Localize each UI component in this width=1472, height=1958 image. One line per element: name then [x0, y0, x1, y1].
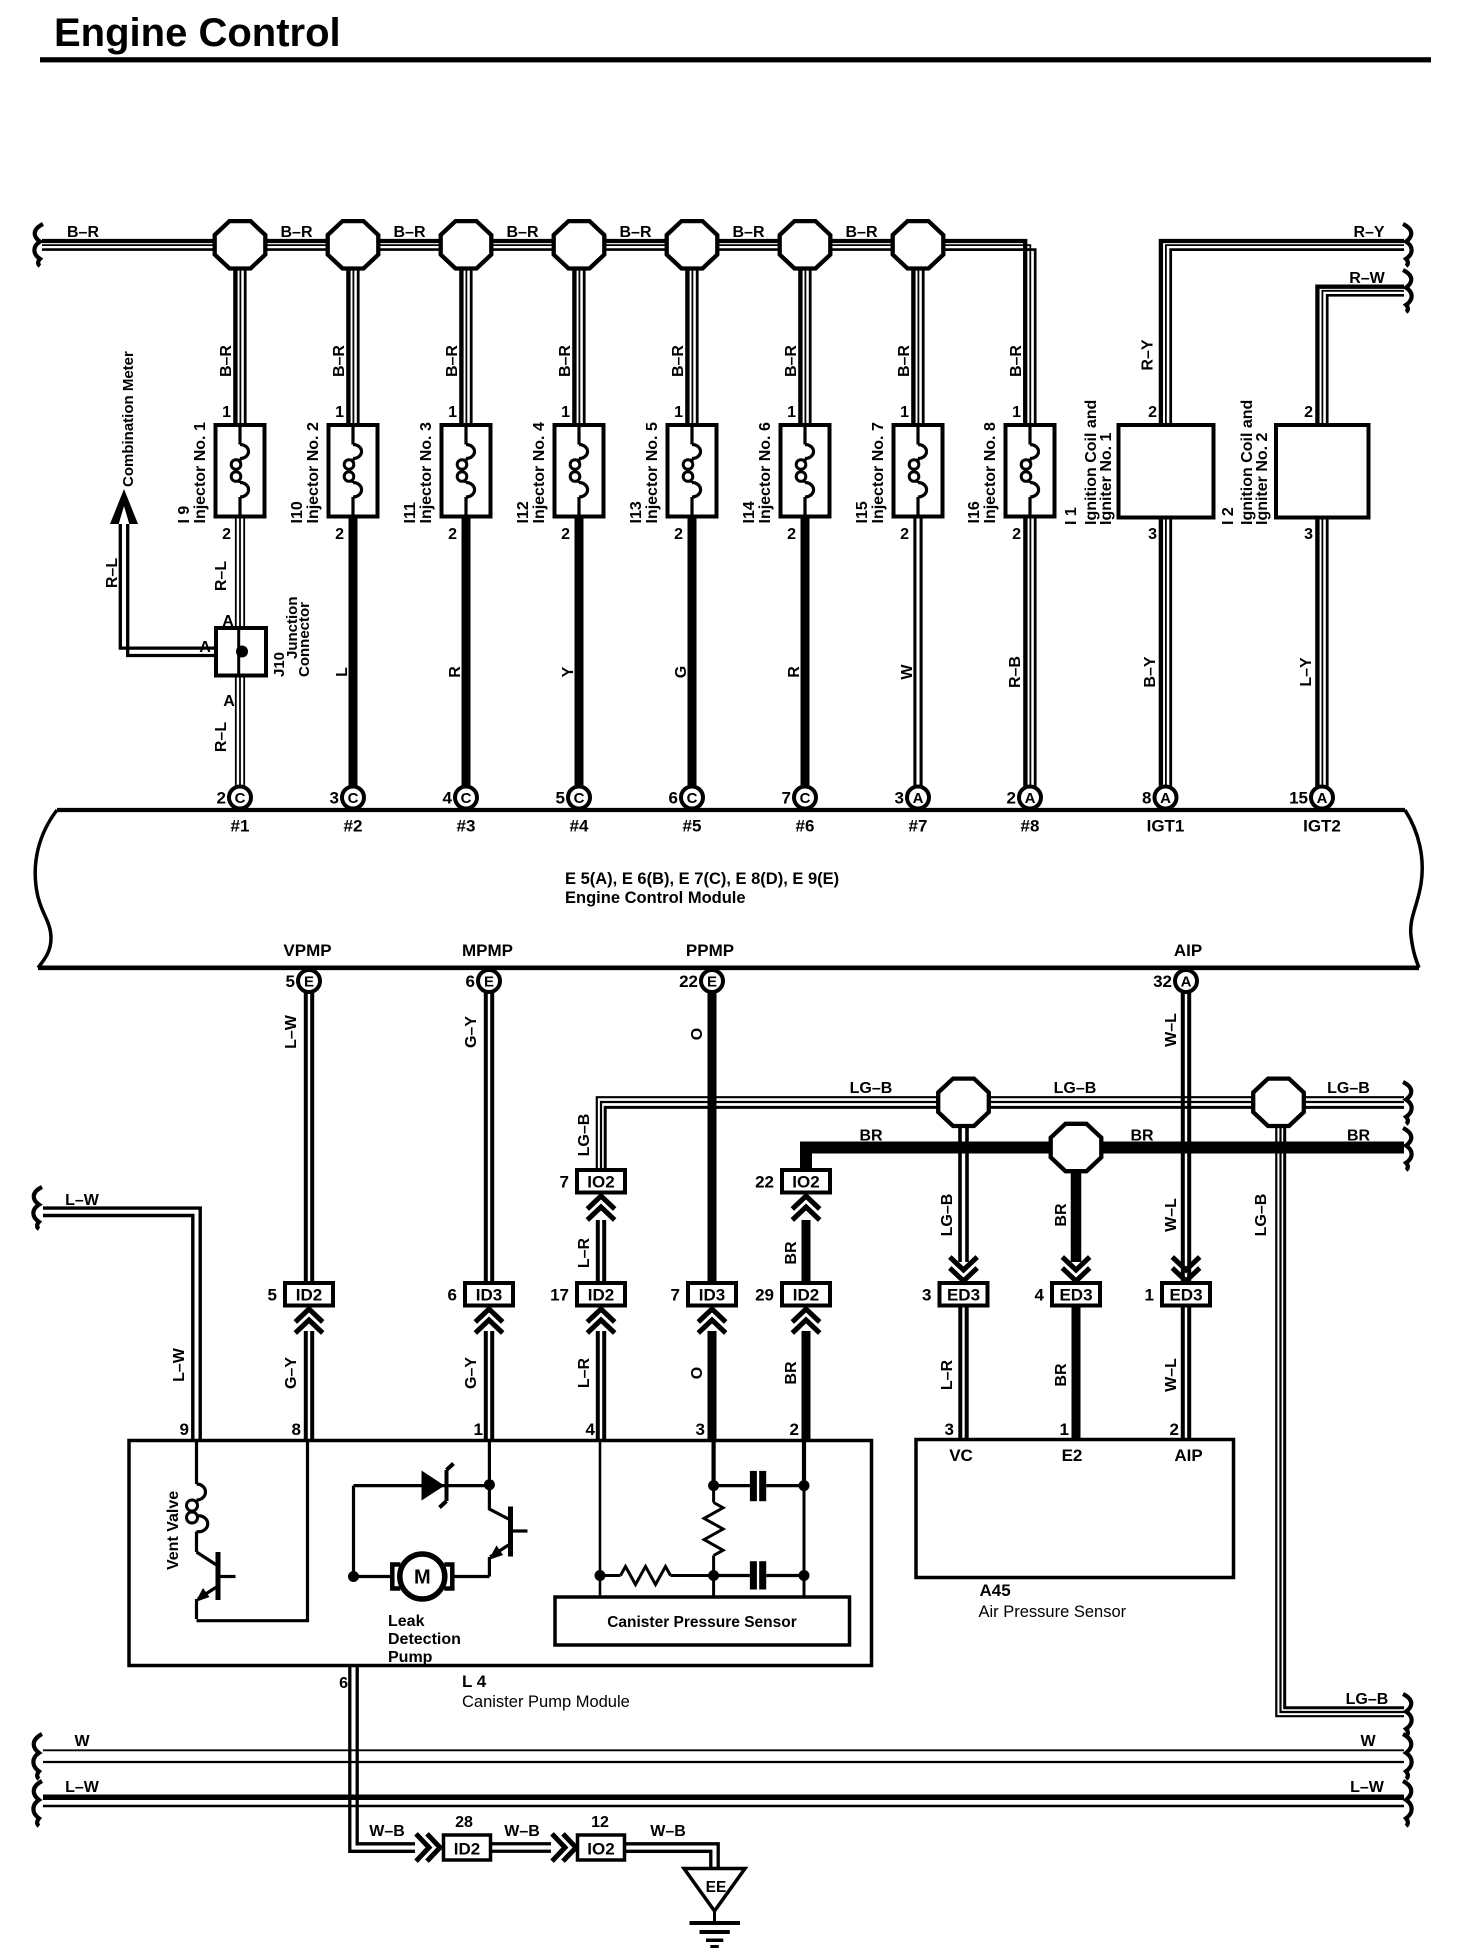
label LG-B right vertical — [1253, 1194, 1270, 1237]
wire B-Y IGT1 — [1161, 518, 1171, 789]
svg-text:G: G — [673, 666, 690, 678]
arrow up below 7 ID3 — [698, 1309, 725, 1333]
label L-Y — [1298, 657, 1315, 687]
ignition coil I2 Ignition Coil and Igniter No. 2 — [1220, 400, 1369, 543]
svg-text:1: 1 — [1012, 404, 1021, 421]
wire injector 6 pin2 to ECM — [801, 517, 810, 789]
svg-text:R–W: R–W — [1349, 270, 1385, 287]
svg-text:B–R: B–R — [896, 345, 913, 377]
svg-text:15: 15 — [1289, 789, 1308, 808]
junction octagon J2 on B-R bus — [328, 221, 379, 268]
label A left of J10 — [199, 639, 211, 656]
svg-text:#1: #1 — [231, 817, 250, 836]
label wire color G — [673, 666, 690, 678]
svg-text:9: 9 — [180, 1420, 189, 1439]
svg-text:B–R: B–R — [619, 224, 651, 241]
wire injector 5 pin2 to ECM — [688, 517, 697, 789]
svg-text:2: 2 — [787, 526, 796, 543]
svg-text:Combination Meter: Combination Meter — [120, 351, 137, 487]
svg-text:6: 6 — [669, 789, 678, 808]
junction octagon J3 on B-R bus — [441, 221, 492, 268]
svg-text:A: A — [1181, 973, 1192, 990]
label G-Y lower — [283, 1357, 300, 1389]
svg-text:29: 29 — [755, 1286, 774, 1305]
svg-text:3: 3 — [696, 1420, 705, 1439]
svg-text:E2: E2 — [1062, 1446, 1083, 1465]
wire W-B from canister pin 6 — [339, 1666, 415, 1852]
svg-text:2: 2 — [1007, 789, 1016, 808]
wire injector 7 pin2 to ECM — [915, 517, 921, 789]
svg-text:IO2: IO2 — [587, 1173, 614, 1192]
svg-text:L–W: L–W — [171, 1347, 188, 1382]
svg-text:VPMP: VPMP — [283, 941, 331, 960]
arrow up below 22 IO2 — [792, 1196, 819, 1220]
svg-text:ID3: ID3 — [476, 1286, 502, 1305]
svg-text:B–R: B–R — [218, 345, 235, 377]
labels W — [74, 1733, 1376, 1750]
label W-L upper — [1163, 1013, 1180, 1047]
svg-text:Injector No. 7: Injector No. 7 — [870, 422, 887, 523]
svg-text:L–W: L–W — [65, 1192, 100, 1209]
svg-text:7: 7 — [671, 1286, 680, 1305]
svg-text:I13: I13 — [628, 501, 645, 523]
svg-text:LG–B: LG–B — [1346, 1691, 1389, 1708]
svg-text:1: 1 — [474, 1420, 483, 1439]
ECM module label — [565, 870, 839, 907]
svg-text:3: 3 — [330, 789, 339, 808]
svg-text:ID2: ID2 — [793, 1286, 819, 1305]
svg-text:3: 3 — [945, 1420, 954, 1439]
svg-text:B–R: B–R — [845, 224, 877, 241]
junction octagon J1 on B-R bus — [215, 221, 266, 268]
injector I9 Injector No. 1 — [176, 404, 265, 543]
svg-text:Injector No. 3: Injector No. 3 — [418, 422, 435, 523]
curl W left — [33, 1734, 42, 1779]
svg-text:3: 3 — [922, 1286, 931, 1305]
label W-L lower — [1163, 1358, 1180, 1392]
zener diode D1 — [354, 1464, 490, 1508]
svg-text:G–Y: G–Y — [283, 1357, 300, 1389]
canister pressure sensor box — [555, 1597, 850, 1645]
svg-text:5: 5 — [268, 1286, 277, 1305]
svg-text:I15: I15 — [854, 501, 871, 523]
svg-text:2: 2 — [222, 526, 231, 543]
svg-text:B–R: B–R — [393, 224, 425, 241]
wire BR drop to ED3 — [1071, 1147, 1082, 1262]
injector I14 Injector No. 6 — [741, 404, 830, 543]
label R-Y — [1353, 224, 1384, 241]
svg-text:2: 2 — [448, 526, 457, 543]
label wire color R — [786, 666, 803, 678]
curl LG-B right — [1403, 1082, 1412, 1124]
svg-text:2: 2 — [217, 789, 226, 808]
svg-text:Engine Control Module: Engine Control Module — [565, 889, 746, 907]
svg-text:R–L: R–L — [104, 558, 121, 588]
svg-text:A: A — [223, 693, 235, 710]
svg-text:#3: #3 — [457, 817, 476, 836]
resistor R2 horizontal — [600, 1567, 714, 1585]
svg-text:W–B: W–B — [650, 1823, 686, 1840]
svg-text:#5: #5 — [683, 817, 702, 836]
connector 4 ED3 — [1035, 1283, 1100, 1306]
label W-B 2 — [504, 1823, 540, 1840]
svg-text:7: 7 — [782, 789, 791, 808]
svg-text:ID2: ID2 — [454, 1840, 480, 1859]
svg-text:Injector No. 4: Injector No. 4 — [531, 422, 548, 523]
wire pin 4 to sensor — [599, 1442, 602, 1597]
svg-text:M: M — [414, 1567, 431, 1589]
connector 28 ID2 — [444, 1814, 491, 1860]
svg-text:5: 5 — [286, 972, 295, 991]
svg-text:E 5(A), E 6(B), E 7(C), E 8(D): E 5(A), E 6(B), E 7(C), E 8(D), E 9(E) — [565, 870, 839, 888]
wire injector 2 pin2 to ECM — [349, 517, 358, 789]
label BR A45 — [1053, 1363, 1070, 1387]
ECM band top edge — [57, 808, 1405, 812]
svg-text:22: 22 — [755, 1173, 774, 1192]
svg-text:8: 8 — [1142, 789, 1151, 808]
svg-text:R: R — [786, 666, 803, 678]
label Leak Detection Pump — [388, 1613, 461, 1666]
wire injector 4 pin2 to ECM — [575, 517, 584, 789]
svg-text:B–R: B–R — [732, 224, 764, 241]
node sensor junctions — [595, 1480, 810, 1581]
svg-text:ED3: ED3 — [947, 1286, 980, 1305]
wire diode left leg down — [352, 1486, 355, 1577]
labels L-W bus — [65, 1779, 1385, 1796]
svg-text:Connector: Connector — [296, 602, 313, 677]
junction octagon J6 on B-R bus — [780, 221, 831, 268]
svg-text:L–R: L–R — [576, 1237, 593, 1268]
curl L-W left bottom — [33, 1781, 42, 1826]
svg-text:Injector No. 5: Injector No. 5 — [644, 422, 661, 523]
svg-text:I 2: I 2 — [1220, 507, 1237, 525]
junction octagon J5 on B-R bus — [667, 221, 718, 268]
svg-text:Detection: Detection — [388, 1631, 461, 1648]
svg-text:L: L — [334, 667, 351, 677]
svg-text:MPMP: MPMP — [462, 941, 513, 960]
svg-text:1: 1 — [787, 404, 796, 421]
wire W bus — [43, 1750, 1404, 1762]
svg-text:2: 2 — [1012, 526, 1021, 543]
arrow up below 17 ID2 — [587, 1309, 614, 1333]
svg-text:IGT2: IGT2 — [1303, 817, 1341, 836]
connector 29 ID2 — [755, 1283, 830, 1306]
svg-text:1: 1 — [1060, 1420, 1069, 1439]
svg-text:I16: I16 — [966, 501, 983, 523]
vent valve coil — [187, 1442, 208, 1552]
svg-text:3: 3 — [1304, 526, 1313, 543]
svg-text:#4: #4 — [570, 817, 589, 836]
svg-text:W–B: W–B — [504, 1823, 540, 1840]
wire BR bus — [801, 1142, 1404, 1171]
svg-text:6: 6 — [466, 972, 475, 991]
svg-text:IO2: IO2 — [587, 1840, 614, 1859]
svg-text:W: W — [899, 664, 916, 680]
label LG-B above IO2 — [576, 1114, 593, 1157]
label Combination Meter — [120, 351, 137, 487]
svg-text:2: 2 — [1304, 404, 1313, 421]
ECM pin 6(C) #5 — [669, 787, 703, 836]
svg-text:O: O — [689, 1367, 706, 1379]
label W-B 1 — [369, 1823, 405, 1840]
svg-text:LG–B: LG–B — [1327, 1080, 1370, 1097]
wire LG-B right vertical to bottom — [1276, 1102, 1404, 1716]
svg-text:A: A — [913, 790, 924, 807]
ECM pin 2(C) #1 — [217, 787, 251, 836]
wire B-R bus end curl left — [34, 224, 43, 266]
label L-R lower — [576, 1357, 593, 1388]
labels BR on bus — [859, 1128, 1370, 1145]
air pressure sensor A45 box — [916, 1440, 1234, 1578]
transistor Q2 leak pump — [489, 1485, 528, 1577]
label R-W — [1349, 270, 1385, 287]
svg-text:Y: Y — [560, 666, 577, 677]
wire L-R to A45 pin 3 — [960, 1306, 966, 1441]
label L 4 Canister Pump Module — [462, 1672, 630, 1711]
svg-text:B–R: B–R — [670, 345, 687, 377]
connector 17 ID2 — [550, 1283, 625, 1306]
label LG-B bottom — [1346, 1691, 1389, 1708]
svg-text:22: 22 — [679, 972, 698, 991]
svg-text:R: R — [447, 666, 464, 678]
svg-text:E: E — [707, 973, 717, 990]
label LG-B above ED3 — [939, 1194, 956, 1237]
svg-text:IO2: IO2 — [792, 1173, 819, 1192]
title: Engine Control — [40, 11, 1431, 62]
wire R-W feed — [1317, 287, 1404, 425]
svg-text:#6: #6 — [796, 817, 815, 836]
wire BR to canister pin 2 — [802, 1331, 811, 1441]
wire G-Y from MPMP — [486, 992, 492, 1283]
svg-text:C: C — [687, 790, 698, 807]
ECM pin 3(A) #7 — [895, 787, 929, 836]
svg-text:4: 4 — [1035, 1286, 1045, 1305]
label G-Y lower2 — [463, 1357, 480, 1389]
svg-text:1: 1 — [900, 404, 909, 421]
injector I13 Injector No. 5 — [628, 404, 717, 543]
label L-W vertical — [171, 1347, 188, 1382]
wire pin1 to pump transistor — [488, 1442, 491, 1485]
wire W-L continue over buses — [1183, 1282, 1189, 1284]
injector I15 Injector No. 7 — [854, 404, 943, 543]
svg-text:B–R: B–R — [557, 345, 574, 377]
wire LG-B drop to ED3 — [960, 1102, 967, 1262]
svg-text:L 4: L 4 — [462, 1672, 487, 1691]
svg-text:Injector No. 8: Injector No. 8 — [982, 422, 999, 523]
canister pin labels — [180, 1420, 799, 1439]
svg-text:12: 12 — [591, 1814, 609, 1831]
svg-text:Injector No. 1: Injector No. 1 — [192, 422, 209, 523]
svg-text:2: 2 — [900, 526, 909, 543]
svg-text:A: A — [1317, 790, 1328, 807]
label wire color L — [334, 667, 351, 677]
svg-text:E: E — [484, 973, 494, 990]
wire W-B 3 to ground — [625, 1844, 719, 1867]
svg-text:5: 5 — [556, 789, 565, 808]
capacitor C2 bottom — [714, 1561, 804, 1589]
svg-text:7: 7 — [560, 1173, 569, 1192]
capacitor C1 top — [714, 1471, 804, 1501]
svg-text:C: C — [461, 790, 472, 807]
svg-text:BR: BR — [1347, 1128, 1371, 1145]
svg-text:28: 28 — [455, 1814, 473, 1831]
connector 22 IO2 — [755, 1170, 830, 1193]
wire R-Y curl right — [1403, 224, 1412, 266]
svg-text:I 1: I 1 — [1063, 507, 1080, 525]
svg-text:6: 6 — [339, 1675, 348, 1692]
svg-text:A45: A45 — [980, 1581, 1011, 1600]
wire injector 3 pin2 to ECM — [462, 517, 471, 789]
ECM pin 3(C) #2 — [330, 787, 364, 836]
svg-text:IGT1: IGT1 — [1147, 817, 1185, 836]
junction connector J10 — [216, 597, 313, 678]
svg-text:I14: I14 — [741, 501, 758, 523]
label G-Y — [463, 1016, 480, 1048]
svg-text:2: 2 — [561, 526, 570, 543]
wire L-Y IGT2 — [1317, 518, 1327, 789]
svg-text:Vent Valve: Vent Valve — [165, 1491, 182, 1570]
wire injector 8 pin2 to ECM — [1025, 517, 1035, 789]
wire O to canister pin 3 — [708, 1331, 717, 1441]
svg-text:AIP: AIP — [1174, 941, 1202, 960]
junction octagon on LG-B bus right — [1253, 1079, 1304, 1126]
svg-text:L–Y: L–Y — [1298, 657, 1315, 687]
svg-text:W–L: W–L — [1163, 1013, 1180, 1047]
svg-text:L–W: L–W — [1350, 1779, 1385, 1796]
svg-text:R–L: R–L — [213, 722, 230, 752]
svg-text:LG–B: LG–B — [850, 1080, 893, 1097]
svg-text:17: 17 — [550, 1286, 569, 1305]
svg-text:2: 2 — [790, 1420, 799, 1439]
svg-text:6: 6 — [448, 1286, 457, 1305]
svg-text:2: 2 — [1148, 404, 1157, 421]
svg-text:B–R: B–R — [444, 345, 461, 377]
svg-text:Pump: Pump — [388, 1649, 433, 1666]
label wire color R — [447, 666, 464, 678]
svg-text:O: O — [689, 1028, 706, 1040]
arrow down above 3 ED3 — [950, 1257, 977, 1281]
svg-text:A: A — [1025, 790, 1036, 807]
svg-text:BR: BR — [859, 1128, 883, 1145]
label A45 Air Pressure Sensor — [979, 1581, 1127, 1621]
wire O from PPMP — [708, 992, 717, 1283]
wire LG-B bus — [597, 1097, 1404, 1170]
svg-text:1: 1 — [674, 404, 683, 421]
svg-text:BR: BR — [783, 1241, 800, 1265]
ECM pin 7(C) #6 — [782, 787, 816, 836]
svg-text:Injector No. 2: Injector No. 2 — [305, 422, 322, 523]
svg-text:C: C — [235, 790, 246, 807]
svg-text:LG–B: LG–B — [1054, 1080, 1097, 1097]
motor M leak detection pump — [354, 1554, 490, 1599]
svg-text:W–B: W–B — [369, 1823, 405, 1840]
svg-text:C: C — [574, 790, 585, 807]
svg-text:1: 1 — [448, 404, 457, 421]
label L-W feed — [65, 1192, 100, 1209]
connector 5 ID2 — [268, 1283, 333, 1306]
svg-text:ID3: ID3 — [699, 1286, 725, 1305]
wires B-R octagon drops — [235, 245, 923, 425]
wire injector 1 pin2 to ECM — [236, 517, 244, 789]
ECM pin 6(E) — [466, 970, 500, 992]
svg-text:I 9: I 9 — [176, 506, 193, 524]
svg-text:2: 2 — [1170, 1420, 1179, 1439]
svg-text:AIP: AIP — [1174, 1446, 1202, 1465]
label A above J10 — [222, 613, 234, 630]
node pump collector junction — [484, 1479, 495, 1490]
curl L-W right bottom — [1403, 1781, 1412, 1826]
ECM pin 5(C) #4 — [556, 787, 590, 836]
svg-text:I11: I11 — [402, 502, 419, 523]
svg-text:#7: #7 — [909, 817, 928, 836]
connector 6 ID3 — [448, 1283, 513, 1306]
arrow up below 7 IO2 — [587, 1196, 614, 1220]
svg-text:ED3: ED3 — [1169, 1286, 1202, 1305]
wire W-L to A45 pin 2 — [1183, 1306, 1189, 1441]
svg-text:G–Y: G–Y — [463, 1016, 480, 1048]
wire R-Y feed — [1161, 241, 1404, 425]
label W-L above 1 ED3 — [1163, 1198, 1180, 1232]
svg-text:B–R: B–R — [280, 224, 312, 241]
svg-text:I12: I12 — [515, 501, 532, 523]
wire G-Y to canister pin 8 — [306, 1331, 312, 1441]
arrow to combination meter — [110, 489, 138, 524]
node motor left junction — [348, 1571, 359, 1582]
wire L-W bus — [43, 1797, 1404, 1806]
svg-text:I10: I10 — [289, 501, 306, 523]
svg-text:VC: VC — [949, 1446, 973, 1465]
label BR — [783, 1241, 800, 1265]
svg-text:8: 8 — [292, 1420, 301, 1439]
svg-text:BR: BR — [783, 1361, 800, 1385]
arrow down above 4 ED3 — [1062, 1257, 1089, 1281]
svg-text:LG–B: LG–B — [576, 1114, 593, 1157]
svg-text:ID2: ID2 — [296, 1286, 322, 1305]
svg-text:Igniter No. 1: Igniter No. 1 — [1098, 432, 1115, 525]
svg-text:BR: BR — [1053, 1363, 1070, 1387]
svg-text:Air Pressure Sensor: Air Pressure Sensor — [979, 1603, 1127, 1621]
ECM pin 2(A) #8 — [1007, 787, 1041, 836]
ECM pin 22(E) — [679, 970, 723, 992]
svg-text:R–Y: R–Y — [1140, 339, 1157, 370]
curl W right — [1403, 1734, 1412, 1779]
labels B-R on bus — [67, 224, 878, 241]
label wire color R–B — [1007, 656, 1024, 688]
svg-text:E: E — [304, 973, 314, 990]
wire J10 to combination meter — [120, 524, 216, 656]
svg-text:1: 1 — [561, 404, 570, 421]
wire L-W feed from left — [43, 1208, 200, 1441]
label Vent Valve — [165, 1491, 182, 1570]
ignition coil I1 Ignition Coil and Igniter No. 1 — [1063, 400, 1214, 543]
svg-text:2: 2 — [335, 526, 344, 543]
label B-Y — [1142, 656, 1159, 687]
curl BR right — [1403, 1128, 1412, 1170]
svg-text:L–R: L–R — [939, 1359, 956, 1390]
ground EE — [684, 1869, 745, 1947]
svg-text:ED3: ED3 — [1059, 1286, 1092, 1305]
svg-text:B–R: B–R — [1008, 345, 1025, 377]
svg-text:#2: #2 — [344, 817, 363, 836]
labels LG-B on bus — [850, 1080, 1370, 1097]
svg-text:1: 1 — [1145, 1286, 1154, 1305]
resistor R1 vertical — [704, 1503, 723, 1556]
label R-L left branch — [104, 558, 121, 588]
arrow right to 28 ID2 — [416, 1834, 440, 1861]
wire L-R to canister pin 4 — [598, 1331, 604, 1441]
svg-text:L–R: L–R — [576, 1357, 593, 1388]
wire vent valve emitter to pin 8 — [197, 1441, 308, 1621]
